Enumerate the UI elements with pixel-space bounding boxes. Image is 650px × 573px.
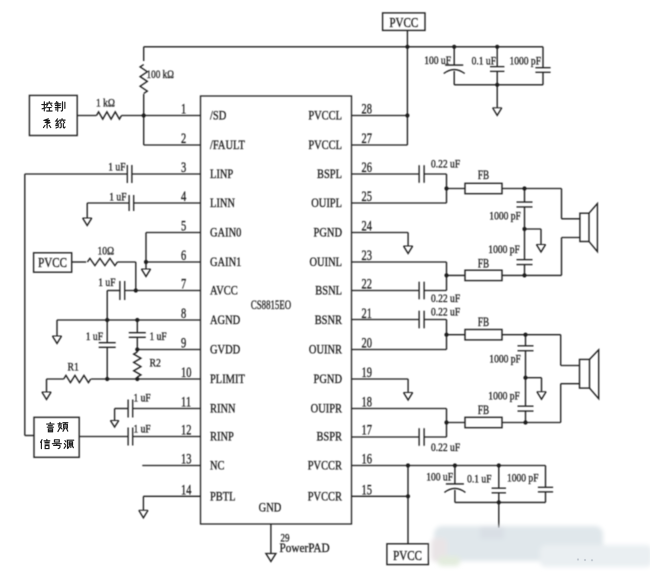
svg-text:PGND: PGND (314, 227, 342, 240)
node GVDD junction (135, 347, 139, 351)
node FB3 output tap (523, 333, 527, 337)
label R2 (150, 357, 161, 370)
svg-text:7: 7 (181, 276, 186, 292)
node A OUTPL (444, 186, 448, 190)
svg-text:PGND: PGND (314, 373, 342, 386)
wire FB3 to speaker riser (502, 334, 561, 336)
node pin 28 (405, 113, 409, 117)
capacitor 1000pF (R upper) (518, 335, 534, 378)
svg-text:1 uF: 1 uF (108, 162, 125, 174)
node top bank ground tap (495, 83, 499, 87)
left pin numbers 1-14 (181, 101, 192, 498)
svg-text:FB: FB (478, 257, 489, 271)
wire PVCC drop to pin 28 (406, 47, 408, 116)
wire speaker1 riser top (562, 189, 580, 219)
svg-text:CS8815EO: CS8815EO (251, 298, 291, 312)
svg-text:R2: R2 (150, 357, 161, 370)
svg-text:FB: FB (478, 316, 489, 330)
svg-text:/FAULT: /FAULT (210, 139, 245, 152)
svg-text:1 uF: 1 uF (134, 393, 151, 405)
svg-text:0.22 uF: 0.22 uF (431, 442, 460, 454)
wire pin 11 segment (115, 408, 201, 410)
svg-text:24: 24 (362, 218, 373, 234)
svg-text:AGND: AGND (210, 314, 240, 327)
svg-text:0.22 uF: 0.22 uF (431, 159, 460, 171)
ferrite bead FB1 (465, 183, 502, 193)
wire 1000pF b to rail (545, 492, 547, 503)
wire L mid to ground (525, 228, 542, 230)
capacitor C BSPR 0.22uF + wire pin 17 (352, 423, 461, 455)
label FB2 (478, 257, 489, 271)
svg-text:PVCC: PVCC (38, 255, 67, 270)
wire FB2 to speaker riser (502, 274, 562, 276)
svg-text:23: 23 (362, 247, 372, 263)
svg-text:1000 pF: 1000 pF (507, 473, 539, 485)
wire pin 28 (352, 115, 408, 117)
wire pin 6 segment (146, 261, 201, 263)
wire speaker2 riser bottom (561, 384, 580, 423)
svg-text:GND: GND (259, 502, 282, 515)
capacitor C AVCC 1uF (120, 281, 125, 300)
svg-text:1: 1 (181, 101, 186, 117)
label 1 kOhm (96, 98, 115, 110)
svg-text:1 uF: 1 uF (109, 192, 126, 204)
wire bottom bank tap down (498, 502, 500, 528)
ground (RINN) (110, 409, 118, 428)
svg-text:GVDD: GVDD (210, 344, 240, 357)
svg-text:/SD: /SD (210, 110, 226, 123)
wire FB1 to speaker riser (502, 188, 562, 190)
svg-text:PVCCL: PVCCL (308, 139, 342, 152)
wire pin 15 (352, 495, 409, 497)
capacitor 1000pF (L upper) (517, 189, 533, 230)
node OUTNL (444, 273, 448, 277)
wire pin 12 segment (79, 436, 200, 438)
wire pin 4 segment (87, 202, 200, 204)
capacitor C BSPL 0.22uF + wire pin 26 (352, 159, 461, 189)
wire node to FB3 (447, 334, 466, 336)
capacitor C GVDD 1uF (129, 333, 146, 338)
label 1000 pF (L lower) (488, 244, 520, 256)
svg-text:RINN: RINN (210, 403, 236, 416)
svg-text:100 uF: 100 uF (426, 472, 453, 484)
wire PVCC drop pin28 to pin27 (406, 116, 408, 146)
resistor 10Ohm (87, 258, 117, 265)
resistor R2 (134, 350, 141, 380)
ground (top bank) (493, 85, 502, 116)
node 0.1uF top rail (495, 45, 499, 49)
capacitor 1000pF (R lower) (518, 378, 534, 423)
label 1 uF (AVCC) (98, 277, 115, 289)
capacitor 0.1uF (top) (490, 67, 504, 72)
wire 1000pF top stub (542, 47, 544, 68)
capacitor C 1uF (PLIMIT filter) (99, 343, 116, 348)
label R1 (68, 361, 79, 374)
svg-text:PowerPAD: PowerPAD (280, 540, 331, 555)
wire pin 20 jog (352, 335, 447, 350)
wire pin 16 rail (352, 465, 546, 467)
capacitor C LINP 1uF (127, 165, 132, 183)
svg-text:FB: FB (478, 169, 489, 183)
wire pin 5 to ground riser (146, 233, 201, 263)
label 1 uF (PLIMIT filter) (86, 331, 103, 343)
svg-text:BSPL: BSPL (317, 168, 342, 181)
wire pin 14 segment (143, 495, 200, 497)
wire speaker2 riser top (561, 335, 580, 366)
wire control box to R (77, 115, 96, 117)
label 100 kOhm (147, 69, 175, 81)
svg-text:OUIPL: OUIPL (311, 197, 342, 210)
ferrite bead FB3 (465, 330, 502, 340)
capacitor 100uF (bottom) (444, 463, 465, 502)
U1 GND pin label (259, 502, 282, 515)
wire pin 23 jog (352, 262, 447, 275)
svg-text:0.22 uF: 0.22 uF (431, 307, 460, 319)
label 1 uF (LINN) (109, 192, 126, 204)
wire PVCC top to rail (406, 30, 408, 46)
node AVCC junction (134, 288, 138, 292)
svg-text:1000 pF: 1000 pF (488, 244, 520, 256)
svg-text:12: 12 (181, 422, 191, 438)
wire pin 10 segment (91, 378, 201, 380)
node pin 15 (406, 494, 410, 498)
svg-text:8: 8 (181, 305, 186, 321)
ground (PGND pin19) (404, 379, 413, 400)
svg-text:0.1 uF: 0.1 uF (472, 56, 496, 68)
capacitor C BSNR 0.22uF + wire pin 21 (352, 307, 461, 335)
wire 1000pF to bottom rail (542, 72, 544, 85)
svg-text:6: 6 (181, 247, 186, 263)
ground (GAIN0/GAIN1) (141, 262, 150, 277)
wire pin 29 PowerPAD stub (270, 524, 272, 554)
node FB2 output tap (522, 273, 526, 277)
U1 right pin names (308, 110, 343, 504)
svg-text:R1: R1 (68, 361, 79, 374)
svg-text:RINP: RINP (210, 431, 234, 444)
wire 0.1uF to bottom rail (496, 71, 498, 85)
svg-text:3: 3 (181, 159, 186, 175)
resistor R1 (64, 375, 91, 382)
node GAIN1 junction (144, 260, 148, 264)
label 1 uF (RINP) (134, 424, 151, 436)
wire PVCC box to 10ohm (72, 261, 87, 263)
svg-text:BSPR: BSPR (316, 431, 342, 444)
wire PVCCR drop (407, 466, 409, 544)
ground (PBTL) (139, 496, 148, 518)
speaker SP2 (right channel) (580, 350, 599, 399)
wire node A to FB (447, 188, 466, 190)
box control system (29, 95, 77, 135)
label 29 (281, 532, 290, 544)
node L filter mid (522, 227, 526, 231)
label FB3 (478, 316, 489, 330)
wire 0.1uF bottom stub (497, 463, 501, 488)
power symbol PVCC (left) (34, 253, 72, 272)
ground (LINN) (83, 203, 92, 226)
wire riser AGND-PLIMIT upper (106, 320, 108, 343)
svg-text:5: 5 (181, 218, 186, 234)
node top rail / PVCC drop (405, 45, 409, 49)
node R2/PLIMIT (135, 377, 139, 381)
wire pin 19 PGND (352, 378, 409, 380)
svg-text:18: 18 (362, 394, 372, 410)
wire bottom bank lower rail (455, 501, 546, 503)
svg-text:11: 11 (181, 394, 191, 410)
ground (R1) (42, 379, 51, 400)
capacitor C RINP 1uF (128, 428, 133, 446)
box audio signal source (34, 417, 79, 457)
capacitor C RINN 1uF (128, 400, 133, 418)
svg-text:1000 pF: 1000 pF (510, 56, 542, 68)
label 0.1 uF (bottom) (467, 474, 491, 486)
wire node to FB2 (447, 274, 466, 276)
svg-text:10: 10 (181, 364, 191, 380)
svg-text:PBTL: PBTL (210, 491, 236, 504)
node PLIMIT/C riser (105, 377, 109, 381)
wire junction to pin 1 (144, 115, 201, 117)
label 100 uF (top) (424, 55, 451, 67)
svg-text:LINN: LINN (210, 197, 235, 210)
ground (R filter) (537, 378, 546, 400)
node FB4 output tap (523, 420, 527, 424)
label 1000 pF (L upper) (489, 211, 521, 223)
wire pin 8 segment (57, 319, 201, 321)
capacitor C BSNL 0.22uF + wire pin 22 (352, 275, 461, 305)
wire audio source left riser (25, 174, 34, 436)
wire pin 18 jog (352, 409, 447, 423)
svg-text:16: 16 (362, 451, 372, 467)
svg-text:FB: FB (478, 404, 489, 418)
svg-text:PVCC: PVCC (389, 15, 418, 30)
node PVCCR junction (406, 463, 410, 467)
svg-text:20: 20 (362, 335, 372, 351)
svg-text:1 uF: 1 uF (98, 277, 115, 289)
node AGND/C1uF riser (105, 318, 109, 322)
svg-text:BSNR: BSNR (315, 314, 343, 327)
wire 10ohm to AVCC (117, 262, 135, 291)
capacitor 1000pF (top) (535, 68, 550, 73)
svg-text:GAIN0: GAIN0 (210, 227, 242, 240)
svg-text:1 uF: 1 uF (134, 424, 151, 436)
ground (L filter) (536, 229, 545, 252)
svg-text:PVCCR: PVCCR (308, 491, 343, 504)
wire node to FB4 (447, 422, 466, 424)
node FB1 output tap (522, 186, 526, 190)
wire FB4 to speaker riser (502, 422, 561, 424)
svg-text:17: 17 (362, 422, 372, 438)
label FB1 (478, 169, 489, 183)
svg-text:1 uF: 1 uF (150, 331, 167, 343)
svg-text:15: 15 (362, 482, 372, 498)
label 1000 pF (R lower) (488, 391, 520, 403)
power symbol PVCC (top) (383, 13, 425, 31)
label control-system box text 控制 / 系统 (42, 102, 65, 128)
svg-text:OUIPR: OUIPR (311, 403, 343, 416)
ground (PGND pin24) (404, 233, 413, 254)
wire top bank bottom rail (454, 84, 543, 86)
wire R mid to ground (526, 377, 542, 379)
svg-text:1000 pF: 1000 pF (488, 391, 520, 403)
U1 part number label (251, 298, 291, 312)
svg-text:10Ω: 10Ω (98, 246, 115, 258)
svg-text:1 kΩ: 1 kΩ (96, 98, 115, 110)
svg-text:BSNL: BSNL (315, 285, 342, 298)
svg-text:GAIN1: GAIN1 (210, 256, 242, 269)
svg-text:0.1 uF: 0.1 uF (467, 474, 491, 486)
wire junction down to pin 2 (144, 116, 201, 146)
svg-text:28: 28 (362, 101, 372, 117)
svg-text:4: 4 (181, 188, 187, 204)
label 1 uF (RINN) (134, 393, 151, 405)
ground (PowerPAD) (266, 554, 276, 562)
ferrite bead FB4 (465, 417, 502, 427)
wire GVDD cap to pin 9 (136, 337, 138, 349)
label 1000 pF (top) (510, 56, 542, 68)
wire 1000pF bottom stub (545, 466, 547, 488)
label 1 uF (LINP) (108, 162, 125, 174)
label 0.1 uF (top) (472, 56, 496, 68)
wire pin 7 segment (107, 290, 200, 292)
svg-text:LINP: LINP (210, 168, 233, 181)
label 100 uF (bottom) (426, 472, 453, 484)
resistor 1kOhm (97, 112, 144, 119)
svg-text:22: 22 (362, 276, 372, 292)
svg-text:100 kΩ: 100 kΩ (147, 69, 175, 81)
svg-text:1 uF: 1 uF (86, 331, 103, 343)
svg-text:NC: NC (210, 460, 225, 473)
capacitor C LINN 1uF (129, 195, 134, 211)
capacitor 1000pF (bottom) (538, 487, 553, 492)
wire 0.1uF top stub (496, 47, 498, 67)
resistor 100kOhm (140, 47, 147, 116)
wire pin 27 (352, 144, 408, 146)
svg-text:PLIMIT: PLIMIT (210, 373, 245, 386)
wire speaker1 riser bottom (562, 238, 580, 276)
svg-text:1000 pF: 1000 pF (489, 354, 521, 366)
svg-text:9: 9 (181, 335, 186, 351)
svg-text:2: 2 (181, 130, 186, 146)
svg-text:1000 pF: 1000 pF (489, 211, 521, 223)
svg-text:13: 13 (181, 451, 191, 467)
wire riser GVDD upper (136, 320, 138, 333)
svg-text:PVCCL: PVCCL (308, 110, 342, 123)
wire riser AGND-PLIMIT lower (106, 347, 108, 379)
label 1000 pF (R upper) (489, 354, 521, 366)
wire pin 3 left segment (25, 173, 201, 175)
svg-text:OUINR: OUINR (309, 344, 342, 357)
right pin numbers 28-15 (362, 101, 373, 498)
svg-text:27: 27 (362, 130, 372, 146)
wire pin 13 stub NC (142, 465, 200, 467)
wire R1 to ground (47, 378, 64, 380)
svg-text:PVCCR: PVCCR (308, 460, 343, 473)
capacitor 1000pF (L lower) (517, 229, 533, 275)
svg-text:100 uF: 100 uF (424, 55, 451, 67)
wire pin 25 jog (352, 189, 447, 204)
node R filter mid (523, 376, 527, 380)
svg-text:0.22 uF: 0.22 uF (431, 293, 460, 305)
svg-text:19: 19 (362, 364, 372, 380)
node OUTNR (444, 333, 448, 337)
wire pin 24 PGND (352, 232, 409, 234)
svg-text:OUINL: OUINL (309, 256, 342, 269)
label FB4 (478, 404, 489, 418)
svg-text:14: 14 (181, 482, 192, 498)
node bottom bank tap (497, 500, 501, 504)
ground (AGND) (52, 320, 61, 344)
svg-text:PVCC: PVCC (393, 548, 422, 563)
speaker SP1 (left channel) (580, 204, 598, 252)
label PowerPAD (280, 540, 331, 555)
watermark blob bottom right (431, 526, 650, 567)
capacitor 100uF (top) stub+symbol (444, 45, 465, 85)
U1 left pin names (210, 110, 245, 504)
label 1 uF (GVDD) (150, 331, 167, 343)
op-amp U1 CS8815EO body (201, 96, 352, 524)
svg-text:25: 25 (362, 188, 372, 204)
wire AVCC cap to AGND riser (106, 291, 108, 321)
node OUTPR (444, 420, 448, 424)
wire top rail (144, 46, 543, 48)
svg-text:AVCC: AVCC (210, 285, 238, 298)
svg-text:26: 26 (362, 159, 372, 175)
label 10 Ohm (98, 246, 115, 258)
capacitor 0.1uF (bottom) (492, 488, 506, 493)
label 1000 pF (bottom) (507, 473, 539, 485)
wire 0.1uF b to rail (498, 492, 500, 502)
node AGND/R2 riser (135, 318, 139, 322)
wire pin 9 segment (137, 349, 200, 351)
label audio-signal-source box text 音频 / 信号源 (41, 422, 74, 448)
power symbol PVCC (bottom) (387, 544, 429, 565)
node pins1-2 junction (142, 113, 146, 117)
ferrite bead FB2 (465, 270, 502, 280)
